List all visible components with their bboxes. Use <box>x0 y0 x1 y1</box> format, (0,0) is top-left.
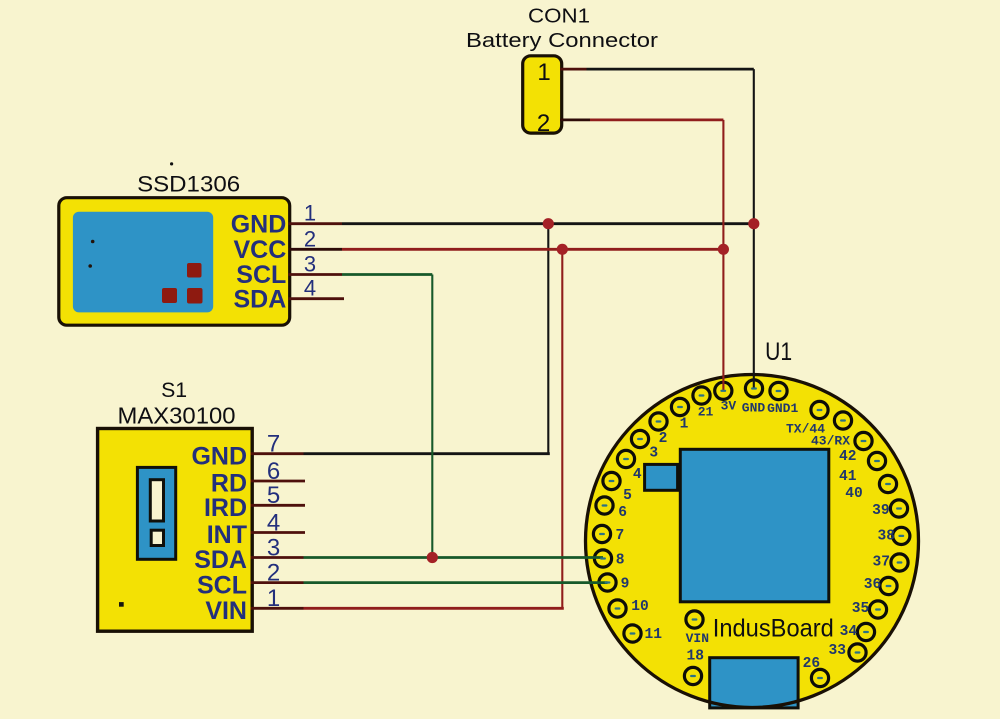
svg-text:21: 21 <box>698 405 714 420</box>
U1 pad 42 <box>855 432 872 449</box>
U1 pad 3 <box>631 430 648 447</box>
MAX30100 pin-1 dot <box>119 602 124 607</box>
MAX30100 LED slot <box>150 480 163 521</box>
U1 pad 26 <box>811 669 828 686</box>
SSD1306 display screen <box>73 212 213 313</box>
U1 small component (blue) near pin 4 <box>645 464 678 490</box>
wire GND net: vertical to U1 GND pad <box>753 69 755 388</box>
SSD1306 pad square 3 <box>187 288 203 304</box>
U1 pad 37 <box>891 554 908 571</box>
U1 pad 6 hole <box>602 504 608 506</box>
svg-text:41: 41 <box>839 469 857 485</box>
U1 pad 35 <box>869 601 886 618</box>
svg-text:34: 34 <box>840 624 858 640</box>
U1 pad 10 hole <box>615 607 621 609</box>
svg-text:GND1: GND1 <box>767 401 798 416</box>
U1 pad 38 hole <box>898 535 904 537</box>
U1 pad 39 hole <box>896 507 902 509</box>
svg-text:3: 3 <box>304 251 316 276</box>
svg-text:1: 1 <box>304 201 316 226</box>
U1 central chip (blue) <box>680 449 829 602</box>
svg-text:7: 7 <box>267 431 280 458</box>
U1 pad 5 <box>603 472 620 489</box>
U1 pad 3 hole <box>637 438 643 440</box>
svg-text:10: 10 <box>631 599 649 615</box>
U1 pad 21 hole <box>699 394 705 396</box>
svg-text:CON1: CON1 <box>528 5 590 27</box>
U1 pad 8 <box>594 550 611 567</box>
svg-text:4: 4 <box>304 276 316 301</box>
svg-text:SSD1306: SSD1306 <box>137 171 240 196</box>
wire MAX30100 VIN pin stub <box>251 607 304 610</box>
U1 pad 34 hole <box>863 631 869 633</box>
U1 pad 33 <box>849 644 866 661</box>
U1 pad 8 hole <box>600 557 606 559</box>
wire CON1 pin1 stub <box>560 68 587 71</box>
wire MAX30100 SDA pin stub <box>251 556 304 559</box>
U1 pad 3V hole <box>720 390 726 392</box>
U1 pad 38 <box>893 527 910 544</box>
svg-text:IRD: IRD <box>204 494 247 522</box>
svg-text:2: 2 <box>659 431 668 447</box>
U1 pad 39 <box>890 500 907 517</box>
U1 pad TX/44 <box>811 401 828 418</box>
svg-text:3V: 3V <box>721 399 737 414</box>
wire green net A: SSD1306 SCL horizontal <box>342 273 432 276</box>
U1 pad 7 <box>593 525 610 542</box>
wire MAX30100 INT pin stub <box>251 531 306 534</box>
svg-text:VIN: VIN <box>205 597 247 625</box>
wire SSD1306 SDA pin stub <box>289 297 345 300</box>
svg-text:39: 39 <box>872 503 890 519</box>
U1 pad 9 <box>599 574 616 591</box>
SSD1306 screen dot 1 <box>91 240 95 244</box>
U1 pad VIN hole <box>692 618 698 620</box>
wire VCC net: riser down to MAX30100 VIN <box>561 249 563 608</box>
svg-text:5: 5 <box>623 488 632 504</box>
connector CON1 (Battery Connector) body <box>523 56 562 133</box>
wire CON1 pin2 stub <box>560 119 590 122</box>
U1 pad 2 <box>650 413 667 430</box>
U1 pad 43/RX <box>834 412 851 429</box>
svg-text:4: 4 <box>267 509 280 536</box>
U1 pad 42 hole <box>861 440 867 442</box>
U1 pad 36 <box>880 577 897 594</box>
svg-text:11: 11 <box>645 627 663 643</box>
U1 pad 6 <box>596 497 613 514</box>
U1 pad 26 hole <box>817 677 823 679</box>
U1 pad 18 hole <box>690 675 696 677</box>
module SSD1306 body <box>59 198 290 326</box>
U1 pad TX/44 hole <box>817 409 823 411</box>
svg-text:SCL: SCL <box>197 571 247 599</box>
svg-text:26: 26 <box>803 656 821 672</box>
svg-text:SDA: SDA <box>234 285 287 313</box>
svg-text:7: 7 <box>616 528 625 544</box>
svg-text:Battery Connector: Battery Connector <box>466 29 658 52</box>
svg-text:35: 35 <box>852 601 870 617</box>
svg-text:S1: S1 <box>161 379 187 402</box>
U1 pad 40 hole <box>885 483 891 485</box>
svg-text:4: 4 <box>633 467 642 483</box>
wire MAX30100 GND horizontal <box>304 452 550 455</box>
U1 pad 41 hole <box>874 460 880 462</box>
U1 pad 11 <box>624 625 641 642</box>
U1 bottom connector (blue) <box>710 658 798 708</box>
wire SSD1306 VCC pin stub <box>289 248 343 251</box>
U1 board outline <box>586 375 919 708</box>
SSD1306 screen dot 2 <box>88 264 92 268</box>
MAX30100 photodetector square <box>151 530 163 545</box>
wire GND net: branch down to MAX30100 GND <box>547 224 549 454</box>
svg-text:1: 1 <box>267 585 280 612</box>
junction VCC/CON1 <box>718 244 729 255</box>
U1 pad GND1 hole <box>776 390 782 392</box>
svg-text:43/RX: 43/RX <box>811 434 850 449</box>
wire MAX30100 IRD pin stub <box>251 504 306 507</box>
IC U1 IndusBoard circular body <box>586 375 919 708</box>
svg-text:GND: GND <box>742 401 766 416</box>
wire VCC net: MAX30100 VIN horizontal <box>304 607 564 610</box>
svg-text:2: 2 <box>267 559 280 586</box>
SSD1306 pad square 1 <box>187 263 202 278</box>
U1 pad 33 hole <box>855 651 861 653</box>
U1 pad 4 hole <box>623 458 629 460</box>
svg-text:6: 6 <box>618 505 627 521</box>
svg-text:IndusBoard: IndusBoard <box>713 614 834 642</box>
U1 pad 7 hole <box>599 533 605 535</box>
U1 pad 43/RX hole <box>840 419 846 421</box>
junction GND branch <box>543 218 554 229</box>
wire GND net: CON1 pin1 horizontal <box>587 68 754 71</box>
svg-text:33: 33 <box>828 643 846 659</box>
wire MAX30100 RD pin stub <box>251 480 306 483</box>
svg-text:INT: INT <box>207 521 247 549</box>
sensor S1 MAX30100 body <box>98 429 253 632</box>
U1 pad 36 hole <box>886 585 892 587</box>
U1 pad 1 hole <box>677 406 683 408</box>
svg-text:3: 3 <box>649 446 658 462</box>
svg-text:1: 1 <box>680 417 689 433</box>
U1 pad 18 <box>684 667 701 684</box>
junction VCC/VIN riser <box>557 244 568 255</box>
wire GND net: SSD1306 GND to CON1 riser <box>342 222 754 225</box>
svg-text:GND: GND <box>231 210 287 238</box>
U1 pad 2 hole <box>656 420 662 422</box>
U1 pad 1 <box>671 398 688 415</box>
wire SSD1306 SCL pin stub <box>289 273 343 276</box>
svg-text:5: 5 <box>267 482 280 509</box>
svg-text:SDA: SDA <box>194 546 247 574</box>
U1 pad GND1 <box>770 382 787 399</box>
wire MAX30100 GND pin stub <box>251 452 304 455</box>
U1 pad 21 <box>693 387 710 404</box>
SSD1306 reference dot <box>170 162 173 165</box>
U1 pad GND hole <box>751 387 757 389</box>
svg-text:VCC: VCC <box>234 236 287 264</box>
svg-text:8: 8 <box>616 553 625 569</box>
U1 pad 37 hole <box>897 561 903 563</box>
U1 pad 11 hole <box>630 632 636 634</box>
wire green net A: MAX30100 SDA to U1 pad 8 <box>304 556 604 559</box>
wire MAX30100 SCL pin stub <box>251 581 304 584</box>
svg-text:GND: GND <box>191 442 247 470</box>
svg-text:18: 18 <box>687 649 705 665</box>
wire VCC net: CON1 pin2 horizontal <box>590 119 723 122</box>
wire green net B: MAX30100 SCL to U1 pad 9 <box>304 581 608 584</box>
MAX30100 sensor window <box>137 467 175 559</box>
U1 pad 10 <box>609 600 626 617</box>
wire green net A: vertical drop <box>431 275 433 558</box>
wire VCC net: vertical to U1 3V pad <box>722 120 724 391</box>
svg-text:42: 42 <box>839 449 857 465</box>
U1 pad 4 <box>617 450 634 467</box>
svg-text:6: 6 <box>267 458 280 485</box>
svg-text:9: 9 <box>621 577 630 593</box>
U1 pad 3V <box>715 382 732 399</box>
U1 pad 34 <box>857 623 874 640</box>
U1 pad GND <box>745 380 762 397</box>
U1 pad 5 hole <box>609 480 615 482</box>
svg-text:VIN: VIN <box>686 631 709 646</box>
U1 pad VIN <box>686 611 703 628</box>
svg-text:2: 2 <box>304 226 316 251</box>
svg-text:3: 3 <box>267 534 280 561</box>
svg-text:U1: U1 <box>765 338 792 366</box>
svg-text:37: 37 <box>873 555 891 571</box>
svg-text:40: 40 <box>845 486 863 502</box>
wire SSD1306 GND pin stub <box>289 222 343 225</box>
SSD1306 pad square 2 <box>162 288 177 303</box>
junction green net A <box>427 552 438 563</box>
svg-text:2: 2 <box>537 110 550 137</box>
svg-text:1: 1 <box>537 59 550 86</box>
svg-text:36: 36 <box>864 577 882 593</box>
wire VCC net: SSD1306 VCC horizontal <box>342 248 723 251</box>
U1 pad 41 <box>868 452 885 469</box>
U1 pad 40 <box>879 475 896 492</box>
U1 pad 9 hole <box>605 581 611 583</box>
svg-text:MAX30100: MAX30100 <box>118 402 236 428</box>
junction GND/CON1 <box>748 218 759 229</box>
svg-text:38: 38 <box>877 529 895 545</box>
U1 pad 35 hole <box>875 608 881 610</box>
